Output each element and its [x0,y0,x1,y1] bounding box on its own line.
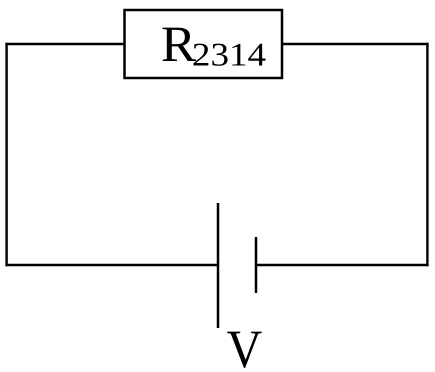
wire: left side segment [5,43,7,266]
wire: top-left segment (top-left corner to resistor left pin) [5,43,124,45]
svg-text:V: V [227,319,263,372]
wire: bottom-left segment (bottom-left corner to battery long plate) [5,264,218,266]
svg-text:R: R [161,17,196,73]
resistor R2314 box [125,10,283,78]
wire: top-right segment (resistor right pin to top-right corner) [282,43,429,45]
battery U1 short plate (negative terminal) [255,237,258,293]
battery U1 long plate (positive terminal) [217,203,220,328]
wire: right side segment [426,43,428,266]
wire: bottom-right segment (battery short plate to bottom-right corner) [256,264,429,266]
svg-text:2314: 2314 [192,38,266,74]
